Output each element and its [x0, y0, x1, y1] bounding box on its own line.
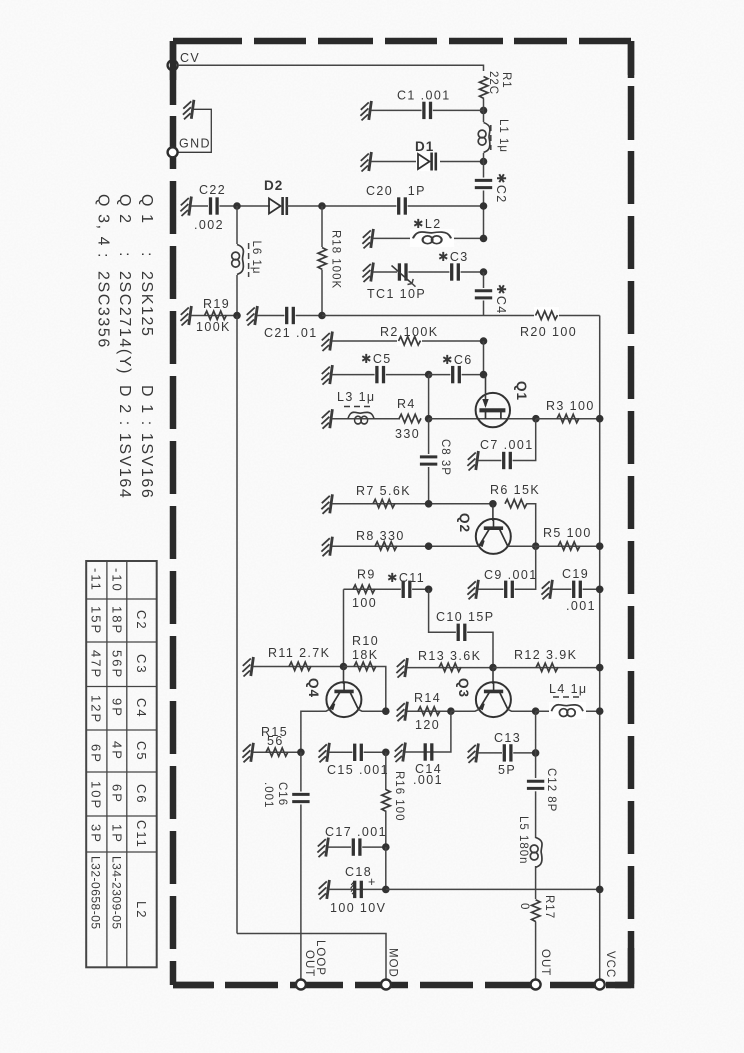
resistor R14: [407, 691, 451, 732]
svg-text:120: 120: [415, 718, 440, 732]
resistor R20: [520, 307, 577, 339]
capacitor C18 (electrolytic): [329, 865, 386, 915]
svg-text:✱C6: ✱C6: [442, 353, 473, 367]
wire right supply bus: [599, 316, 601, 981]
node R11/R10/Q4 base junction: [340, 663, 348, 671]
svg-text:CV: CV: [180, 51, 200, 65]
svg-text:R16 100: R16 100: [393, 771, 405, 821]
node R12/bus junction: [596, 664, 604, 672]
node R5/bus junction: [596, 542, 604, 550]
svg-text:56: 56: [267, 734, 284, 748]
svg-text:D2: D2: [264, 178, 283, 193]
svg-text:.001: .001: [262, 782, 274, 808]
capacitor C20: [366, 184, 426, 215]
svg-text:56P: 56P: [110, 650, 125, 679]
svg-text:C17 .001: C17 .001: [325, 825, 387, 839]
capacitor C3: [438, 250, 469, 281]
ground C17: [317, 838, 328, 858]
wire R1 to L1: [483, 99, 485, 123]
wire Q4 collector to node: [358, 709, 385, 711]
diode D1 (1SV166 varactor): [415, 139, 440, 171]
ground C13: [467, 743, 478, 763]
svg-text:+: +: [368, 875, 377, 889]
resistor R19: [191, 297, 236, 334]
svg-text:C4: C4: [134, 698, 149, 719]
ground C18: [318, 880, 329, 900]
resistor R13: [407, 649, 493, 672]
wire C18 node to bus: [386, 888, 600, 890]
node D1/L1/C2 junction: [480, 158, 488, 166]
svg-text:.001: .001: [566, 599, 596, 613]
svg-text:R14: R14: [414, 691, 441, 705]
capacitor C2: [475, 173, 508, 204]
node R1/C1/L1 junction: [480, 107, 488, 115]
ground R11: [242, 657, 253, 677]
inductor L5: [517, 791, 542, 899]
node D2/R18 junction: [318, 202, 326, 210]
wire Q4 emitter to R15 column: [301, 709, 330, 752]
svg-text:✱C5: ✱C5: [361, 352, 392, 366]
svg-text:R11 2.7K: R11 2.7K: [268, 646, 330, 660]
node LOOP OUT terminal: [296, 940, 326, 990]
svg-text:Q 1: Q 1: [138, 194, 155, 225]
svg-text:C21 .01: C21 .01: [264, 326, 318, 340]
wire R16 to C18 node: [385, 847, 387, 889]
svg-text:R3 100: R3 100: [546, 399, 595, 413]
wire C1 row: [371, 109, 484, 111]
svg-text:L34-2309-05: L34-2309-05: [110, 856, 124, 930]
svg-text:47P: 47P: [89, 650, 104, 679]
node VCC terminal: [595, 951, 616, 990]
svg-text:C12 8P: C12 8P: [545, 768, 557, 812]
svg-text:✱C2: ✱C2: [494, 173, 508, 204]
ground L2: [362, 229, 373, 249]
svg-text:Q1: Q1: [514, 381, 529, 401]
capacitor C13: [478, 731, 536, 777]
node Q2 collector junction: [532, 542, 540, 550]
svg-text:R7 5.6K: R7 5.6K: [356, 484, 411, 498]
ground C5: [321, 365, 332, 385]
svg-text:C13: C13: [494, 731, 521, 745]
svg-text:C11: C11: [134, 820, 149, 849]
capacitor C12: [527, 711, 557, 812]
svg-text:R1: R1: [500, 72, 512, 89]
capacitor C1: [397, 89, 451, 120]
resistor R6: [490, 483, 540, 546]
parts list text: [95, 194, 156, 499]
svg-text:R8 330: R8 330: [356, 529, 405, 543]
svg-text:.002: .002: [194, 218, 224, 232]
node CV terminal: [168, 51, 201, 70]
svg-text:D1: D1: [415, 139, 434, 154]
ground R19: [180, 306, 191, 326]
svg-text:C19: C19: [562, 567, 589, 581]
ground R14: [396, 702, 407, 722]
capacitor C19: [552, 567, 600, 613]
capacitor C10: [436, 610, 494, 641]
ground R15: [242, 743, 253, 763]
svg-text:D 1 : 1SV166: D 1 : 1SV166: [138, 385, 155, 499]
resistor R1: [480, 71, 513, 99]
node C19/bus junction: [596, 586, 604, 594]
node R15/Q4 emitter/C16 junction: [297, 749, 305, 757]
wire D2 to C20: [287, 205, 484, 207]
ground C22: [180, 197, 191, 217]
svg-text:Q4: Q4: [306, 678, 321, 698]
svg-text:L1 1μ: L1 1μ: [497, 119, 509, 153]
resistor R4: [395, 397, 421, 441]
node C11 junction: [425, 586, 433, 594]
transistor Q2 (2SC2714): [457, 504, 511, 554]
svg-text:TC1 10P: TC1 10P: [367, 287, 426, 301]
ground C9: [467, 580, 478, 600]
svg-text:C7 .001: C7 .001: [480, 438, 534, 452]
wire C3 node to C4: [483, 272, 485, 288]
node L2/C2 junction: [480, 235, 488, 243]
resistor R16: [382, 752, 405, 847]
ground (GND box symbol): [178, 100, 212, 153]
wire Q3 collector to L4 node: [508, 709, 536, 711]
inductor L1: [478, 119, 509, 153]
svg-text::: :: [116, 252, 133, 258]
node R7/R6/Q2 base junction: [489, 500, 497, 508]
capacitor C4: [475, 284, 508, 315]
resistor R15: [253, 725, 301, 756]
node R3/bus junction: [596, 415, 604, 423]
svg-text:OUT: OUT: [539, 949, 551, 976]
svg-text:-10: -10: [110, 568, 125, 593]
svg-text:18P: 18P: [110, 606, 125, 635]
svg-text:C1 .001: C1 .001: [397, 89, 451, 103]
node R4/C8 junction: [425, 415, 433, 423]
svg-text:Q 3, 4: Q 3, 4: [95, 194, 112, 247]
svg-text:R13 3.6K: R13 3.6K: [418, 649, 481, 663]
svg-text:9P: 9P: [110, 698, 125, 718]
wire R9 left down to R11 node: [343, 589, 345, 666]
node C6/gate junction: [480, 371, 488, 379]
svg-text:100K: 100K: [196, 320, 231, 334]
wire L2 row: [373, 237, 484, 239]
ground R13: [396, 658, 407, 678]
svg-text:C16: C16: [276, 782, 288, 806]
wire Q3 emitter to R14 node: [451, 709, 479, 711]
svg-text:C3: C3: [134, 654, 149, 675]
ground C7: [467, 451, 478, 471]
wire C4 to supply row: [483, 301, 485, 316]
ground R7: [321, 494, 332, 514]
svg-text:C5: C5: [134, 741, 149, 762]
svg-text:C2: C2: [134, 610, 149, 631]
svg-text:100 10V: 100 10V: [330, 901, 386, 915]
capacitor C8: [420, 419, 451, 504]
node C5/C6 junction: [425, 371, 433, 379]
svg-text:L4 1μ: L4 1μ: [549, 682, 588, 696]
resistor R9: [344, 568, 429, 611]
wire left bus to MOD: [237, 934, 386, 981]
svg-text:22C: 22C: [487, 71, 499, 95]
node R13/R12/Q3 base junction: [489, 664, 497, 672]
svg-text:R4: R4: [397, 397, 416, 411]
node OUT terminal: [531, 949, 551, 990]
svg-text:L3 1μ: L3 1μ: [337, 390, 376, 404]
capacitor C9: [478, 546, 538, 598]
wire TC1/C3 row: [373, 271, 484, 273]
svg-text:5P: 5P: [498, 763, 516, 777]
svg-text:2SC2714(Y): 2SC2714(Y): [116, 271, 133, 375]
svg-text::: :: [138, 252, 155, 258]
svg-text:C20 1P: C20 1P: [366, 184, 426, 198]
ground R2: [321, 332, 332, 352]
svg-text:6P: 6P: [89, 744, 104, 764]
node GND terminal: [168, 137, 211, 158]
svg-text:Q3: Q3: [456, 678, 471, 698]
svg-text:12P: 12P: [89, 695, 104, 724]
inductor L2: [410, 217, 454, 247]
capacitor C15: [327, 743, 389, 777]
resistor R10: [344, 634, 386, 711]
svg-text:3P: 3P: [89, 824, 104, 844]
ground C1: [360, 101, 371, 121]
wire left bus vertical: [236, 316, 238, 934]
node C13/C12 junction: [532, 749, 540, 757]
svg-text:R18 100K: R18 100K: [330, 230, 342, 289]
svg-text:15P: 15P: [89, 606, 104, 635]
node R7/C8 junction: [425, 500, 433, 508]
node R10/Q4 collector junction: [382, 707, 390, 715]
svg-text:C9 .001: C9 .001: [484, 568, 538, 582]
svg-text:C10 15P: C10 15P: [436, 610, 494, 624]
node R19/L6 junction: [233, 312, 241, 320]
resistor R17: [518, 895, 555, 980]
svg-text:R17: R17: [543, 895, 555, 919]
resistor R5: [508, 526, 600, 550]
capacitor C22: [194, 183, 226, 232]
capacitor C21: [257, 307, 322, 341]
capacitor C16: [262, 752, 310, 980]
svg-text:✱C11: ✱C11: [387, 571, 425, 585]
svg-text:4P: 4P: [110, 741, 125, 761]
ground C14: [394, 743, 405, 763]
svg-text:D 2 : 1SV164: D 2 : 1SV164: [116, 385, 133, 499]
ground L3: [321, 409, 332, 429]
node R14/Q3 emitter junction: [447, 707, 455, 715]
svg-text:0: 0: [518, 903, 530, 910]
transistor Q3 (2SC3356): [456, 668, 511, 718]
svg-text:10P: 10P: [89, 781, 104, 810]
inductor L3: [332, 390, 400, 424]
ground R8: [321, 537, 332, 557]
svg-text:VCC: VCC: [604, 951, 616, 978]
capacitor C11: [387, 571, 425, 598]
svg-text:OUT: OUT: [303, 950, 315, 977]
svg-text:Q2: Q2: [457, 513, 472, 533]
capacitor C14: [405, 743, 443, 787]
wire R2 node down to C6 node: [483, 341, 485, 375]
node C17/R16 junction: [382, 843, 390, 851]
resistor R12: [493, 648, 600, 672]
svg-text:6P: 6P: [110, 784, 125, 804]
ground C15: [318, 743, 329, 763]
node C22/L6 junction: [233, 202, 241, 210]
wire C2 to C20 node: [483, 191, 485, 239]
svg-text:R9: R9: [357, 568, 376, 582]
svg-text:R6 15K: R6 15K: [490, 483, 540, 497]
svg-text:MOD: MOD: [387, 948, 399, 978]
resistor R11: [253, 646, 344, 671]
node R8/C11 bus junction: [425, 542, 433, 550]
svg-text:1P: 1P: [110, 824, 125, 844]
transistor Q4 (2SC3356): [306, 667, 361, 718]
svg-text:100: 100: [352, 596, 377, 610]
ground C21: [246, 306, 257, 326]
wire R4 node to Q1 source row: [429, 418, 536, 420]
svg-text::: :: [95, 253, 112, 259]
svg-text:L5 180n: L5 180n: [517, 816, 529, 865]
wire L1 to C2: [483, 153, 485, 178]
svg-text:✱C4: ✱C4: [494, 284, 508, 315]
resistor R2: [332, 325, 484, 346]
svg-text:✱L2: ✱L2: [413, 217, 442, 231]
component value table: [86, 561, 157, 967]
resistor R3: [536, 399, 600, 423]
svg-text:C22: C22: [199, 183, 226, 197]
node C15/R16 junction: [382, 749, 390, 757]
svg-text:.001: .001: [413, 773, 443, 787]
wire supply row to R20: [322, 315, 600, 317]
ground C19: [541, 580, 552, 600]
node C20/C2 junction: [480, 202, 488, 210]
svg-text:2SK125: 2SK125: [138, 271, 155, 338]
svg-text:C6: C6: [134, 784, 149, 805]
resistor R18: [318, 206, 342, 316]
svg-text:L6 1μ: L6 1μ: [250, 241, 262, 275]
capacitor C7: [478, 419, 536, 470]
wire CV to R1 top: [178, 65, 484, 71]
wire C11 node to C10: [429, 589, 493, 667]
capacitor C17: [325, 825, 387, 856]
svg-text:18K: 18K: [352, 648, 378, 662]
ground D1: [360, 152, 371, 172]
svg-text:L2: L2: [134, 901, 149, 919]
wire D1 row: [371, 161, 484, 163]
svg-text:2SC3356: 2SC3356: [95, 271, 112, 349]
diode D2 (1SV164 varactor): [264, 178, 287, 215]
node MOD terminal: [381, 948, 399, 990]
resistor R7: [332, 484, 493, 508]
node L4/bus junction: [596, 707, 604, 715]
node C18/R16 junction: [382, 886, 390, 894]
capacitor C6: [429, 353, 484, 384]
node R2/gate junction: [480, 337, 488, 345]
node C18 row/bus junction: [596, 886, 604, 894]
svg-text:C8 3P: C8 3P: [439, 439, 451, 476]
wire C5 node down to R4: [428, 375, 430, 419]
trimmer capacitor TC1: [367, 263, 426, 301]
wire C22 row: [191, 205, 270, 207]
capacitor C5: [332, 352, 429, 384]
wire R14 node down to C14: [436, 711, 451, 752]
transistor Q1 (2SK125 FET): [476, 375, 529, 427]
svg-text:330: 330: [395, 427, 420, 441]
svg-text:R2 100K: R2 100K: [380, 325, 438, 339]
inductor L4: [536, 682, 600, 719]
ground TC1: [362, 263, 373, 283]
svg-text:R20 100: R20 100: [520, 325, 577, 339]
inductor L6: [232, 206, 262, 316]
svg-text:R12 3.9K: R12 3.9K: [514, 648, 577, 662]
svg-text:-11: -11: [89, 568, 104, 592]
resistor R8: [332, 529, 479, 550]
svg-text:R10: R10: [352, 634, 379, 648]
node Q1 source/R3 junction: [532, 415, 540, 423]
svg-text:R5 100: R5 100: [543, 526, 592, 540]
svg-text:C15 .001: C15 .001: [327, 763, 389, 777]
svg-text:R19: R19: [203, 297, 230, 311]
node C21/R18 junction: [318, 312, 326, 320]
node C3/C4 junction: [480, 268, 488, 276]
node Q3 collector/C13/L4 junction: [532, 707, 540, 715]
svg-text:GND: GND: [179, 137, 211, 151]
svg-text:✱C3: ✱C3: [438, 250, 469, 264]
svg-text:L32-0658-05: L32-0658-05: [89, 856, 103, 930]
svg-text:Q 2: Q 2: [116, 194, 133, 225]
